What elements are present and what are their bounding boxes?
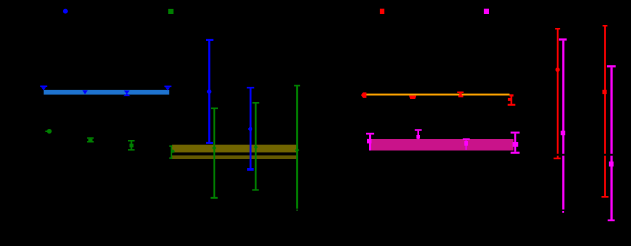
blue marker on errorbar 2 with x-stub [248, 128, 250, 129]
orange span line (right panel) [362, 94, 510, 96]
legend marker magenta square [484, 9, 489, 14]
blue errorbar cap left end [40, 86, 47, 88]
blue vertical errorbar 2 (middle) [247, 87, 254, 89]
red bowtie marker R3 top [457, 92, 463, 94]
green faint end dot errorbar C [296, 209, 298, 211]
red caret-left marker R1 [361, 92, 366, 98]
olive band upper (middle panel) [172, 145, 298, 153]
magenta square marker F2 [609, 162, 614, 167]
green left bracket errorbar [169, 145, 172, 146]
red bowtie marker R3 bottom [458, 95, 463, 97]
blue triangle-down marker mid2 [124, 91, 130, 95]
blue errorbar cap right end [164, 86, 171, 88]
blue limit triangle left end [41, 87, 46, 90]
legend marker red square [380, 9, 384, 14]
green point G3 errorbar [128, 140, 135, 142]
magenta tall errorbar F2 (far right) [607, 65, 616, 67]
green vertical errorbar C (middle) [294, 85, 300, 87]
green vertical errorbar A (middle) [211, 108, 218, 110]
blue series span line (left panel) [44, 90, 170, 95]
red tall errorbar E2 (far right) [603, 25, 608, 27]
legend marker green square [168, 9, 173, 14]
black cap tick crossing far-right errorbars [552, 154, 617, 156]
green diamond marker A on olive band [212, 146, 216, 150]
green diamond marker B on olive band [254, 145, 258, 149]
mediumvioletred span bar (right panel) [371, 139, 514, 151]
blue triangle-up marker mid2 [123, 93, 130, 96]
legend marker blue circle [63, 9, 68, 14]
blue vertical errorbar 1 (middle) [206, 39, 213, 41]
magenta errorbar P2 [415, 129, 422, 131]
green point G1 circle with x-error stub [45, 131, 47, 132]
red square marker E2 [602, 90, 606, 94]
magenta errorbar P3 [463, 138, 470, 140]
red circle marker E1 [555, 68, 559, 72]
green diamond marker C on olive band [295, 148, 299, 152]
blue circle marker on errorbar 1 [207, 91, 209, 93]
magenta square marker F1 [561, 131, 566, 136]
green point G2 errorbar [87, 137, 94, 139]
red tall errorbar E1 (far right) [555, 28, 560, 30]
green vertical errorbar B (middle) [252, 102, 259, 104]
red right-end marker R4 with lower errorbar [510, 94, 514, 96]
green diamond marker at left bracket [171, 149, 175, 153]
olive band lower (middle panel) [172, 155, 297, 159]
magenta tall errorbar F1 (far right) [559, 38, 567, 40]
red triangle-down marker R2 [409, 96, 416, 99]
blue limit triangle right end [165, 87, 170, 90]
magenta end dot F1 [562, 211, 564, 213]
magenta errorbar P1 [366, 133, 374, 135]
blue triangle-down marker mid1 [82, 90, 88, 94]
magenta errorbar P4 [511, 132, 520, 134]
